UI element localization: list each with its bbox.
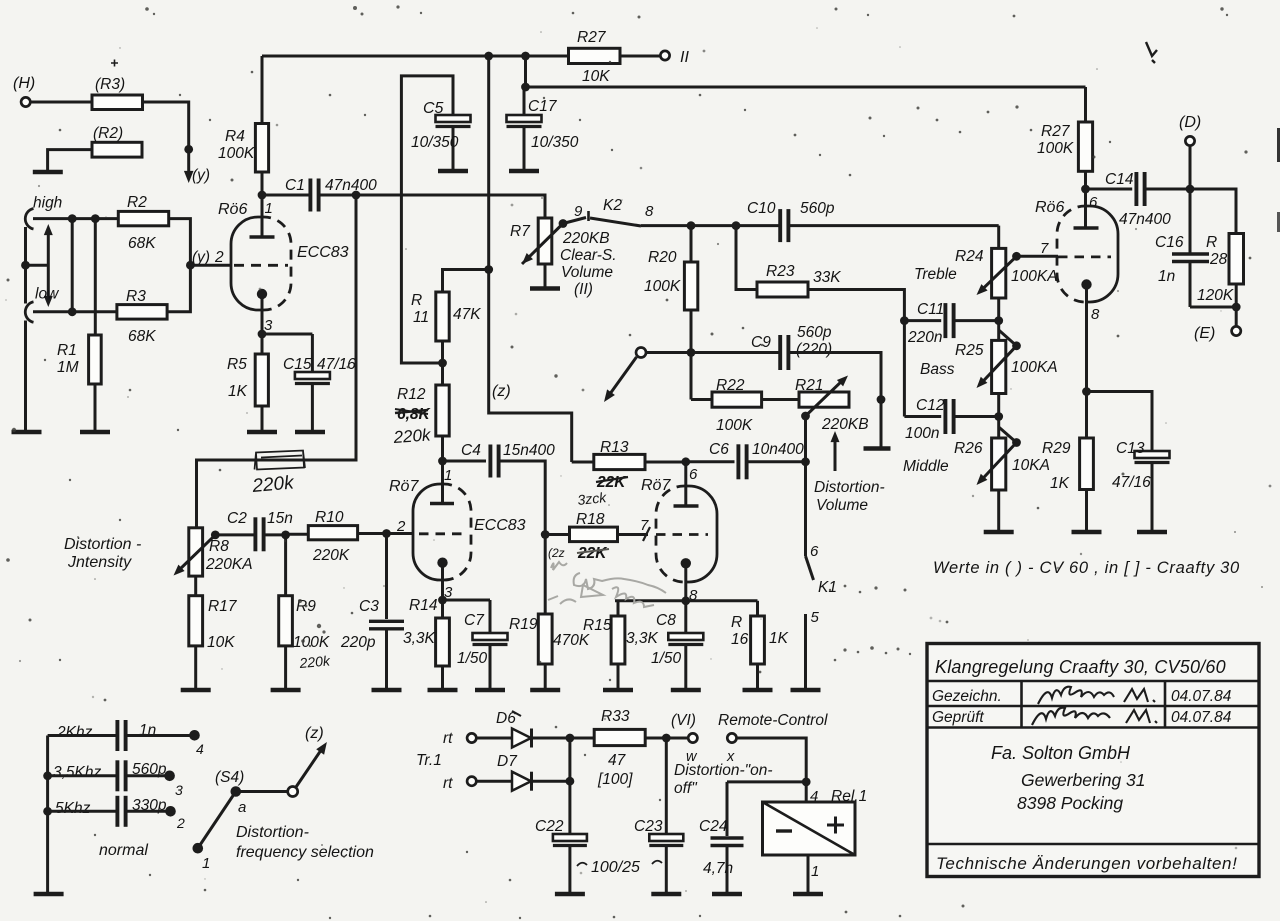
svg-text:1K: 1K [228, 383, 248, 400]
ground below R26 [984, 530, 1014, 535]
wire R1 branch [94, 219, 97, 335]
resistor R28 [1197, 234, 1244, 305]
svg-text:Treble: Treble [914, 266, 957, 283]
svg-text:R18: R18 [576, 511, 605, 528]
ground below R19 [530, 688, 560, 693]
svg-text:220KB: 220KB [821, 416, 869, 433]
label K1 [818, 579, 837, 596]
label (VI) [671, 712, 696, 729]
junction C11 left [900, 316, 909, 325]
pin1 label Rö7a [444, 467, 452, 484]
handwritten 220k near R12 [392, 425, 433, 447]
ground below C23 [651, 892, 681, 897]
svg-text:ECC83: ECC83 [297, 244, 349, 261]
junction relay top [802, 778, 811, 787]
label 5 K1 [811, 609, 820, 626]
label rt lower [443, 775, 453, 792]
svg-text:C17: C17 [528, 98, 558, 115]
svg-text:Rö6: Rö6 [218, 201, 247, 218]
svg-text:22K: 22K [577, 545, 608, 562]
svg-text:1/50: 1/50 [651, 650, 682, 667]
label R8 220KA [205, 538, 253, 573]
resistor R3 [117, 288, 167, 345]
input jack high contact [25, 209, 33, 230]
svg-text:6: 6 [810, 543, 819, 560]
svg-text:Volume: Volume [561, 264, 613, 281]
junction low-a [68, 307, 77, 316]
svg-text:D7: D7 [497, 753, 518, 770]
svg-text:100K: 100K [644, 278, 681, 295]
capacitor C5 feed [401, 76, 453, 363]
wire R21 to ground [880, 400, 883, 448]
wire R2 to node y2 [169, 219, 191, 266]
input jack low contact [25, 302, 33, 323]
capacitor C16 [1155, 234, 1209, 307]
svg-text:1: 1 [811, 863, 819, 880]
svg-text:1/50: 1/50 [457, 650, 488, 667]
junction R20 top [687, 221, 696, 230]
svg-text:10K: 10K [582, 68, 610, 85]
capacitor C14 [1086, 171, 1191, 228]
label ECC83 Rö6 [297, 244, 349, 261]
wire R21 wiper down [804, 416, 807, 462]
svg-text:R1: R1 [57, 342, 77, 359]
arrow to (z) [604, 357, 637, 402]
svg-text:R3: R3 [126, 288, 146, 305]
svg-text:1: 1 [202, 855, 210, 872]
ground below C13 [1137, 530, 1167, 535]
signature 2 [1032, 708, 1157, 725]
switch K1 arm [806, 556, 814, 580]
svg-text:220n: 220n [907, 329, 942, 346]
svg-text:R27: R27 [1041, 123, 1071, 140]
pin 1 label [265, 200, 273, 217]
wire distortion feed [197, 195, 357, 528]
ground below R7 [530, 286, 560, 291]
wire R11 bottom [441, 341, 444, 385]
svg-text:47/16: 47/16 [1112, 474, 1151, 491]
terminal (E) [1194, 325, 1241, 342]
wire 3.5Khz row [48, 774, 166, 777]
tube Rö7b cathode [681, 558, 691, 568]
svg-text:4,7n: 4,7n [703, 860, 733, 877]
label Distortion on-off [674, 762, 773, 797]
terminal rt upper [467, 733, 476, 742]
svg-text:560p: 560p [800, 200, 835, 217]
label rt upper [443, 730, 453, 747]
svg-text:Rö7: Rö7 [641, 477, 671, 494]
wire pin6 node to K1 [804, 462, 807, 556]
switch S4 arm to z [296, 742, 327, 787]
pencil mark before 22K [548, 546, 565, 560]
svg-text:220KB: 220KB [562, 230, 610, 247]
svg-text:2: 2 [176, 815, 185, 831]
tube Rö6b envelope [1057, 206, 1118, 302]
wire (H) to R3 [30, 101, 92, 104]
capacitor C13 [1112, 440, 1170, 531]
junction R18 left [541, 530, 550, 539]
resistor R12 [397, 385, 449, 436]
wire to C15 [262, 333, 312, 336]
svg-text:220k: 220k [251, 472, 296, 497]
svg-text:7: 7 [640, 517, 649, 534]
R25 wiper [977, 330, 1021, 388]
resistor R27 (10K) [569, 29, 621, 85]
resistor R11 [411, 270, 489, 342]
bus drop [489, 56, 572, 462]
svg-text:1K: 1K [1050, 475, 1070, 492]
ground below R29 [1072, 530, 1102, 535]
tube Rö6b plate [1074, 226, 1099, 230]
R21 wiper [801, 376, 848, 421]
bus second [526, 86, 1086, 89]
svg-text:04.07.84: 04.07.84 [1171, 709, 1232, 726]
title text Klangregelung [935, 657, 1226, 677]
ground below (R2) [33, 170, 63, 175]
switch S4 arm to 1 [200, 792, 236, 846]
wire to C24 [727, 780, 806, 783]
wire C16 to E [1190, 306, 1236, 309]
jack body wire [24, 227, 27, 304]
svg-text:(D): (D) [1179, 114, 1201, 131]
wire R3 to corner [143, 102, 189, 149]
wire R10 to grid [358, 532, 413, 535]
wire x to relay [737, 738, 807, 802]
switch K2 arm [590, 218, 641, 226]
svg-text:33K: 33K [813, 269, 841, 286]
svg-text:(VI): (VI) [671, 712, 696, 729]
wire R27 to II [620, 55, 661, 58]
resistor R29 [1042, 392, 1093, 532]
capacitor C3 [340, 534, 404, 690]
wire R5 top [261, 334, 264, 354]
svg-text:100n: 100n [905, 425, 939, 442]
junction bus2 [521, 83, 530, 92]
wire to R13 [572, 461, 594, 464]
pencil scribble Klage [548, 562, 666, 607]
svg-text:1: 1 [265, 200, 273, 217]
capacitor C15 [283, 334, 356, 431]
svg-text:R17: R17 [208, 598, 238, 615]
svg-text:R29: R29 [1042, 440, 1071, 457]
node (H) label [13, 75, 35, 92]
svg-text:Clear-S.: Clear-S. [560, 247, 617, 264]
junction select [21, 261, 30, 270]
diode D7 [497, 753, 532, 791]
pin 7 label Rö6b [1040, 240, 1049, 257]
svg-text:R8: R8 [209, 538, 229, 555]
potentiometer R24 [914, 248, 1058, 298]
pencil mark under R9 [298, 652, 332, 671]
resistor R1 [57, 335, 101, 384]
svg-text:rt: rt [443, 730, 453, 747]
terminal (H) [21, 97, 30, 106]
svg-text:3: 3 [175, 782, 183, 798]
freq bus [46, 736, 49, 894]
resistor (R3) [92, 76, 143, 110]
terminal x [726, 733, 737, 765]
node y2 [186, 261, 195, 270]
svg-text:11: 11 [413, 309, 429, 326]
resistor R18 [545, 511, 617, 542]
svg-text:(z): (z) [305, 725, 324, 742]
label Rö6 [218, 201, 247, 218]
ground below R9 [271, 688, 301, 693]
svg-text:8: 8 [645, 203, 654, 220]
svg-text:C10: C10 [747, 200, 776, 217]
tube Rö7a plate [430, 461, 454, 504]
junction high-a [68, 214, 77, 223]
pin 7 label Rö7b [640, 517, 649, 534]
svg-text:100K: 100K [218, 145, 255, 162]
label (S4) [215, 769, 244, 786]
ground below C22 [555, 892, 585, 897]
svg-text:(y): (y) [192, 249, 210, 266]
svg-text:Distortion-"on-: Distortion-"on- [674, 762, 773, 779]
resistor R16 [731, 601, 789, 689]
svg-text:frequency selection: frequency selection [236, 844, 374, 861]
svg-text:47n400: 47n400 [1119, 211, 1171, 228]
wire pin7 Rö6b [1017, 255, 1059, 258]
svg-text:47n400: 47n400 [325, 177, 377, 194]
svg-text:8398 Pocking: 8398 Pocking [1017, 793, 1123, 813]
svg-text:68K: 68K [128, 328, 156, 345]
resistor R20 [644, 226, 698, 353]
pin 6 label Rö7b [689, 466, 698, 483]
wire R13 to pin6 [645, 461, 686, 464]
svg-text:R7: R7 [510, 223, 531, 240]
junction cathode Rö7b [681, 596, 690, 605]
potentiometer R21 [795, 377, 869, 433]
svg-text:15n400: 15n400 [503, 442, 555, 459]
ground below K1 [791, 688, 821, 693]
svg-text:1: 1 [444, 467, 452, 484]
svg-text:(z): (z) [492, 383, 511, 400]
svg-text:5Khz: 5Khz [55, 800, 91, 817]
wire to C13 [1087, 392, 1153, 452]
junction R11 tap [484, 265, 493, 274]
svg-text:Gewerbering 31: Gewerbering 31 [1021, 770, 1146, 790]
svg-text:R24: R24 [955, 248, 984, 265]
wire 5Khz row [48, 810, 167, 813]
junction bus-b [521, 52, 530, 61]
contact 2 [165, 806, 185, 831]
svg-text:220k: 220k [298, 652, 332, 671]
pin 8 label Rö6b [1091, 306, 1100, 323]
tube Rö6b grid dashes [1058, 255, 1111, 258]
terminal rt lower [467, 777, 476, 786]
svg-text:R33: R33 [601, 708, 630, 725]
label K2 [603, 197, 622, 214]
tube Rö6b cathode [1081, 279, 1091, 289]
svg-text:C11: C11 [917, 301, 944, 318]
junction C1-right [352, 191, 361, 200]
arrow to R21 wiper [831, 431, 840, 471]
junction cathode node [258, 330, 267, 339]
terminal II [660, 51, 669, 60]
pin 3 label [264, 317, 273, 334]
ground below jack [12, 430, 42, 435]
svg-text:68K: 68K [128, 235, 156, 252]
wire K2 row [641, 224, 780, 227]
ground below C17 [509, 169, 539, 174]
svg-text:C24: C24 [699, 818, 728, 835]
ground below C3 [372, 688, 402, 693]
wire R4 top to bus [261, 56, 264, 124]
svg-text:6: 6 [1089, 194, 1098, 211]
svg-text:C2: C2 [227, 510, 247, 527]
ground below C7 [475, 688, 505, 693]
junction freq-3 [43, 807, 52, 816]
node y junction [184, 145, 193, 154]
wire z row [646, 351, 780, 354]
wire R33 to w [645, 737, 688, 740]
svg-text:16: 16 [731, 631, 749, 648]
capacitor C1 [262, 177, 377, 212]
resistor R15 [583, 601, 659, 689]
contact 1 [193, 843, 211, 872]
capacitor C12 [904, 397, 998, 442]
label (y) 2 [192, 249, 224, 266]
wire C4 to R18 node [499, 461, 545, 535]
wire D down [1189, 146, 1192, 253]
label 22K R18 [577, 545, 609, 562]
R26 wiper [977, 427, 1021, 485]
junction D6-C22 [566, 734, 575, 743]
wire R19 drop [544, 535, 547, 615]
svg-text:(S4): (S4) [215, 769, 244, 786]
svg-text:Jntensity: Jntensity [67, 554, 132, 571]
svg-text:C12: C12 [916, 397, 945, 414]
label 8 contact [645, 203, 654, 220]
ground below R1 [80, 430, 110, 435]
svg-text:low: low [35, 286, 60, 303]
resistor R33 [594, 708, 645, 788]
pin 8 label Rö7b [689, 587, 698, 604]
svg-text:high: high [33, 195, 62, 212]
svg-text:47: 47 [608, 752, 627, 769]
pin 2 label Rö7a [396, 518, 406, 535]
tube Rö7b plate [674, 462, 699, 506]
wire C23 drop [665, 738, 668, 833]
svg-text:6: 6 [689, 466, 698, 483]
svg-text:R2: R2 [127, 194, 147, 211]
label Distortion-frequency selection [236, 824, 374, 861]
svg-text:100K: 100K [1037, 140, 1074, 157]
junction R23 top [732, 221, 741, 230]
wire R1 to ground [94, 384, 97, 431]
junction freq-2 [43, 771, 52, 780]
svg-text:(H): (H) [13, 75, 35, 92]
svg-text:R21: R21 [795, 377, 823, 394]
pin 6 label Rö6b [1089, 194, 1098, 211]
jack sleeve wire to ground [24, 321, 27, 432]
svg-text:47/16: 47/16 [317, 356, 356, 373]
tube Rö6a plate [250, 195, 275, 237]
ground below C8 [671, 688, 701, 693]
wire R22-R21 [762, 398, 799, 401]
junction high-b [91, 214, 100, 223]
svg-text:100/25: 100/25 [591, 859, 640, 876]
svg-text:R22: R22 [716, 377, 745, 394]
wire C1 to R7 [356, 195, 545, 218]
capacitor C8 [651, 601, 703, 689]
wire R4 bottom [261, 172, 264, 195]
label Remote-Control [718, 712, 828, 729]
svg-text:9: 9 [574, 203, 583, 220]
svg-text:R: R [411, 292, 422, 309]
svg-text:Distortion-: Distortion- [236, 824, 309, 841]
wire select link [26, 264, 49, 267]
svg-text:R: R [731, 614, 742, 631]
label low [35, 286, 60, 303]
svg-text:R12: R12 [397, 386, 426, 403]
wire R2 left to ground [48, 150, 92, 171]
junction C1-left [258, 191, 267, 200]
junction R29 top [1082, 387, 1091, 396]
label Distortion-Intensity [64, 536, 141, 571]
label 6,8K crossed [395, 406, 432, 423]
svg-text:Werte in ( ) - CV 60 , in [ ]: Werte in ( ) - CV 60 , in [ ] - Craafty … [933, 559, 1240, 577]
svg-text:4: 4 [196, 741, 204, 757]
svg-text:100K: 100K [293, 634, 330, 651]
wire 2Khz row [48, 734, 191, 737]
junction pin6 node [681, 457, 690, 466]
svg-text:470K: 470K [553, 632, 590, 649]
relay Rel.1 box [763, 802, 856, 855]
pencil scribble under R13 [577, 489, 608, 508]
label (z) S4 [305, 725, 324, 742]
diode D6 [496, 710, 532, 748]
svg-text:22K: 22K [596, 474, 627, 491]
resistor R17 [189, 576, 238, 689]
tube Rö6a grid dashes [234, 264, 288, 267]
capacitor C6 [686, 441, 806, 479]
svg-text:K2: K2 [603, 197, 622, 214]
junction C14 left [1081, 185, 1090, 194]
label (y) [192, 167, 210, 184]
svg-text:1K: 1K [769, 630, 789, 647]
junction C3 top [382, 529, 391, 538]
tube Rö7a cathode [437, 558, 447, 568]
svg-text:28: 28 [1209, 251, 1228, 268]
capacitor C9 [751, 324, 832, 370]
svg-text:Rö6: Rö6 [1035, 199, 1064, 216]
switch K2 contact 9 [563, 203, 589, 224]
label Rö6b [1035, 199, 1064, 216]
wire R14 node [438, 567, 447, 604]
switch S4 wire to hub [236, 790, 288, 793]
label Werte note [933, 559, 1240, 577]
scan mark right edge [1277, 128, 1280, 232]
label 3,5Khz [53, 764, 102, 781]
svg-text:C9: C9 [751, 334, 771, 351]
junction C6 right [801, 457, 810, 466]
wire R25 top [997, 321, 1000, 341]
junction C11 [994, 316, 1003, 325]
tube Rö7b envelope [656, 486, 717, 582]
svg-text:a: a [238, 799, 246, 816]
wire R12 bottom [441, 436, 444, 461]
svg-text:R13: R13 [600, 439, 629, 456]
label Rö7b [641, 477, 671, 494]
label 2Khz [56, 724, 93, 741]
title Gezeichn row [932, 688, 1232, 705]
svg-text:47K: 47K [453, 306, 481, 323]
terminal z-node [636, 348, 646, 358]
svg-text:Middle: Middle [903, 458, 949, 475]
svg-text:C8: C8 [656, 612, 676, 629]
